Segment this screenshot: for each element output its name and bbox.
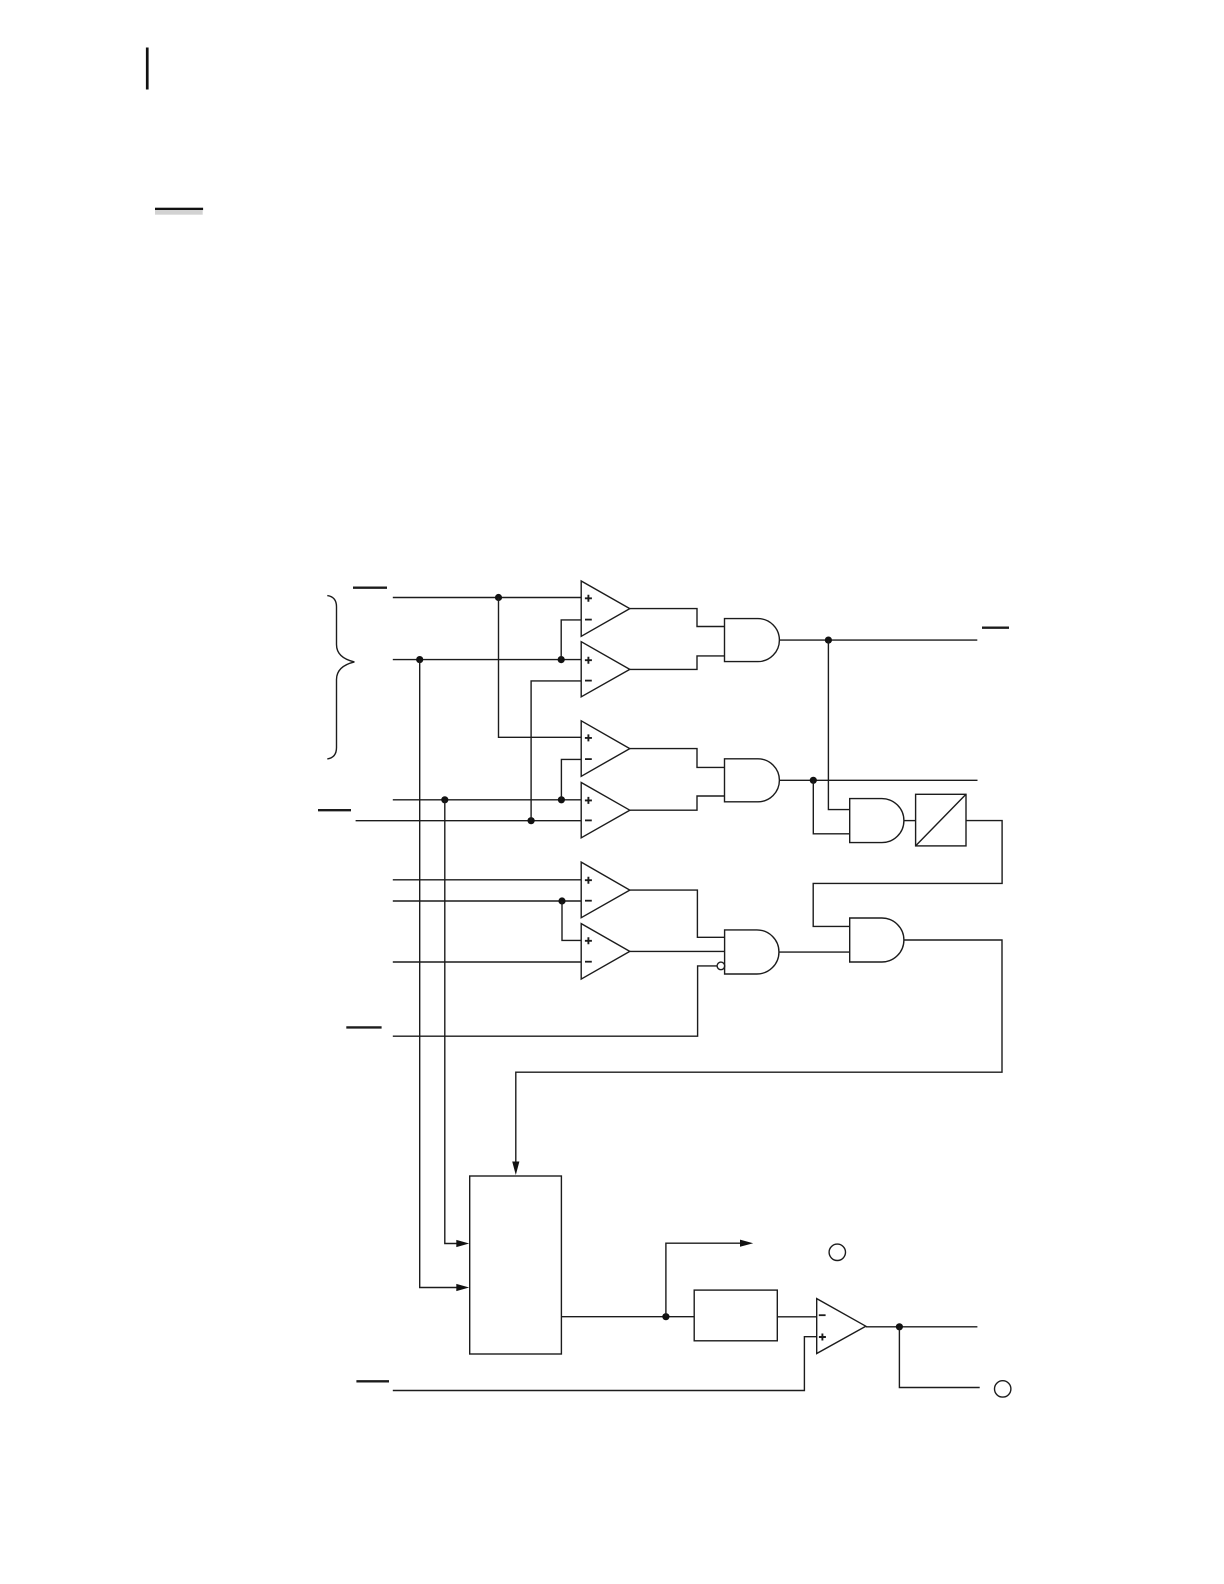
wire node3 down to latch xyxy=(445,800,457,1244)
wire input 1 xyxy=(393,597,581,599)
wire G1 output xyxy=(779,639,977,641)
wire U1 out to G1 xyxy=(630,609,725,627)
pin circle upper xyxy=(829,1244,845,1260)
nand gate G5 xyxy=(725,930,779,974)
wire G2 node to G3 xyxy=(813,780,849,834)
node on G1 output xyxy=(825,637,832,644)
wire node3 to U3 minus xyxy=(561,759,581,799)
wire U2 out to G1 xyxy=(630,656,725,670)
and gate G1 xyxy=(725,619,780,662)
wire input 9 to U7 plus xyxy=(393,1337,817,1391)
wire G1 node to G3 xyxy=(828,640,849,810)
heading rule black xyxy=(155,208,203,210)
node on wire 4 xyxy=(528,817,535,824)
wire node2 down to latch xyxy=(420,660,457,1288)
wire one-shot feedback to G4 xyxy=(813,821,1002,927)
wire node6 to U6 plus xyxy=(562,901,581,940)
overline label wire1 xyxy=(353,587,387,589)
wire U6 out to G5 xyxy=(630,950,725,952)
overline label wire4 xyxy=(318,809,351,811)
wire input 5 U5 plus xyxy=(393,879,581,881)
page change bar xyxy=(146,48,149,90)
wire node up to arrow xyxy=(666,1243,740,1317)
wire U4 out to G2 xyxy=(630,796,725,810)
wire G4 output feedback to latch xyxy=(516,940,1002,1162)
comparator U3 xyxy=(581,721,630,777)
wire input 6 U5 minus xyxy=(393,900,581,902)
brace left input group xyxy=(327,596,354,759)
comparator U4 xyxy=(581,783,630,838)
and gate G4 xyxy=(850,918,904,962)
and gate G2 xyxy=(725,759,780,802)
and gate G3 xyxy=(850,799,904,843)
node on U7 output xyxy=(896,1323,903,1330)
node on latch output xyxy=(662,1313,669,1320)
filter block xyxy=(694,1290,777,1341)
wire input 8 to NAND inverted pin xyxy=(393,966,717,1036)
wire node2 to U1 minus xyxy=(561,620,581,660)
wire input 2 xyxy=(393,659,581,661)
wire U7 output xyxy=(866,1326,978,1328)
arrowhead into latch top xyxy=(512,1162,519,1176)
latch block xyxy=(470,1176,562,1354)
wire input 7 U6 minus xyxy=(393,961,581,963)
wire node down to output terminal xyxy=(899,1327,979,1388)
node on G2 output xyxy=(810,777,817,784)
wire filter to U7 minus xyxy=(777,1316,816,1318)
wire G5 out to G4 xyxy=(779,951,850,953)
comparator U7 xyxy=(817,1299,866,1354)
node on wire 3 right xyxy=(558,796,565,803)
wire G2 output xyxy=(779,779,977,781)
node on wire 2 left xyxy=(416,656,423,663)
overline label AND1 output xyxy=(982,627,1009,629)
output terminal circle xyxy=(995,1381,1011,1397)
node on wire 3 left xyxy=(441,796,448,803)
wire U5 out to G5 xyxy=(630,890,725,937)
node on wire 6 xyxy=(558,897,565,904)
overline label wire6 xyxy=(356,1380,389,1382)
node on wire 2 right xyxy=(558,656,565,663)
wire input 4 xyxy=(356,820,582,822)
wire latch output xyxy=(561,1316,694,1318)
comparator U1 xyxy=(581,581,630,636)
wire input 3 xyxy=(393,799,581,801)
arrowhead into latch lower left xyxy=(456,1284,469,1291)
arrowhead pointing right xyxy=(740,1240,753,1247)
wire G3 to one-shot xyxy=(904,820,916,822)
comparator U6 xyxy=(581,924,630,980)
arrowhead into latch upper left xyxy=(456,1240,469,1247)
wire U3 out to G2 xyxy=(630,749,725,768)
heading rule gray xyxy=(155,210,203,215)
one-shot block A1 xyxy=(916,794,966,846)
wire node1 to U3 plus xyxy=(499,598,582,738)
overline label wire5 xyxy=(346,1026,381,1028)
node on wire 1 xyxy=(495,594,502,601)
nand bubble xyxy=(717,962,725,970)
wire node4 to U2 minus xyxy=(531,681,581,821)
comparator U5 xyxy=(581,862,630,918)
comparator U2 xyxy=(581,642,630,697)
